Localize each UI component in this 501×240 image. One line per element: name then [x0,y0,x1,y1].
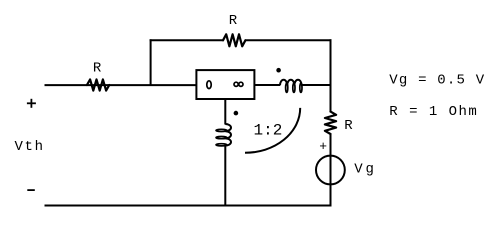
svg-text:Vg = 0.5 V: Vg = 0.5 V [389,72,484,88]
polarity dot of L1 [276,68,281,73]
wire: top horizontal left of resistor [150,39,223,41]
inductor L1 (horizontal) humps [280,80,302,86]
nullor box U1 [196,70,254,99]
inductor L2 loops [216,129,227,131]
infinity symbol inside box (two circles) [234,82,238,86]
svg-text:Vth: Vth [15,139,44,155]
wire: inductor L2 down to bottom wire [224,145,226,206]
svg-text:R: R [229,13,238,29]
terminal minus [27,189,35,191]
label 0 inside box (oval zero) [207,81,211,89]
inductor L2 (vertical) humps [225,124,231,146]
wire: inductor L1 to right vertical [301,84,331,86]
coupling arc 1:2 [245,108,300,153]
wire: left junction vertical [150,39,152,86]
wire: top horizontal right of resistor [245,39,331,41]
wire: resistor R3 down through source to bottom [330,134,332,206]
resistor R2 (top) [223,34,245,46]
wire: right vertical from top corner down to resistor R3 [330,39,332,111]
resistor R1 (left) [87,79,109,90]
terminal plus [27,102,36,104]
polarity dot of L2 [234,111,239,116]
wire: left terminal horizontal to box [45,84,197,86]
svg-text:R: R [93,61,102,77]
wire: box bottom down to inductor L2 [224,99,226,125]
bottom wire [45,205,332,207]
svg-text:+: + [319,139,327,154]
svg-text:R = 1 Ohm: R = 1 Ohm [389,104,477,120]
inductor L1 loops [286,83,288,92]
svg-text:R: R [344,118,353,134]
resistor R3 (right, vertical) [325,112,336,134]
source Vg circle [316,156,345,185]
wire: box right edge to inductor L1 [254,84,280,86]
svg-text:1:2: 1:2 [254,121,283,139]
